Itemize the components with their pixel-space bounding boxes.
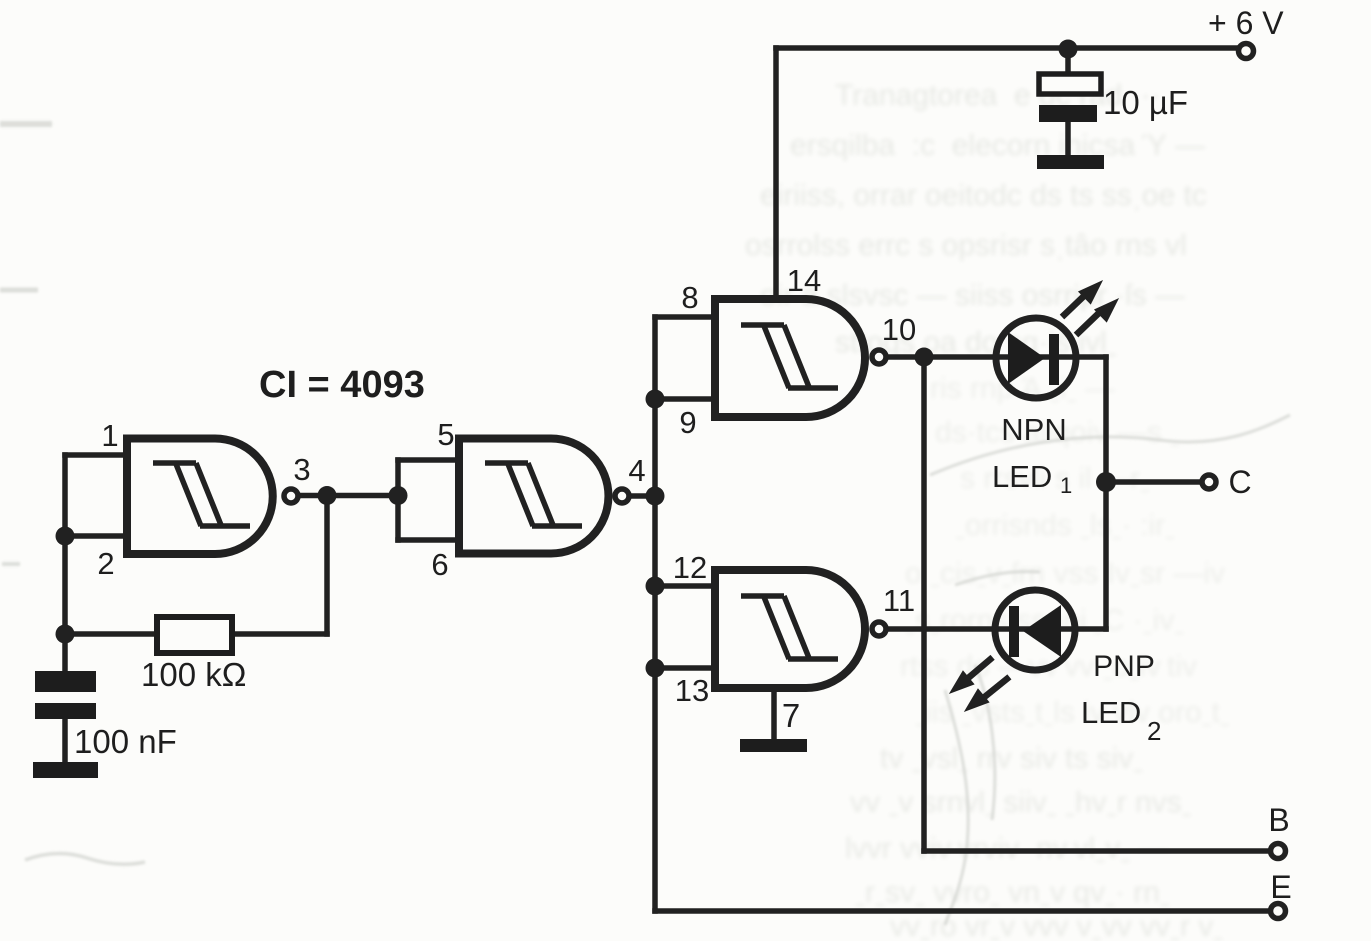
svg-text:14: 14	[787, 263, 821, 298]
gate U1-d body (pins 12,13 -> 11)	[715, 570, 865, 688]
capacitor C2 10uF positive plate (hollow)	[1039, 74, 1101, 94]
svg-text:+ 6 V: + 6 V	[1208, 5, 1284, 41]
wire LED1 right side down to node C	[1103, 357, 1109, 629]
schmitt symbol U1-a	[153, 463, 250, 526]
svg-text:CI = 4093: CI = 4093	[259, 364, 425, 406]
LED1 light arrow 1	[1062, 281, 1102, 317]
svg-text:1: 1	[101, 418, 118, 453]
wire pin14 supply drop	[773, 48, 779, 296]
svg-text:2: 2	[1147, 716, 1161, 746]
node 9 junction	[646, 390, 665, 409]
gate U1-c body (pins 8,9 -> 10)	[715, 299, 865, 417]
node gate2 input junction	[389, 486, 408, 505]
svg-text:10: 10	[882, 312, 916, 347]
wire pin 7 to ground	[771, 688, 777, 740]
svg-text:5: 5	[437, 417, 454, 452]
svg-text:s rrsvli s il ―rˍ: s rrsvli s il ―rˍ	[960, 462, 1150, 495]
LED1 anode triangle	[1008, 332, 1045, 384]
gate U1-a body (pins 1,2 -> 3)	[127, 439, 273, 555]
wire gate2 input bracket vertical	[395, 460, 401, 540]
svg-text:eiriiss, orrar oeitodc ds ts s: eiriiss, orrar oeitodc ds ts ssˌoe tc	[760, 179, 1207, 212]
node 3	[318, 486, 337, 505]
wire pin 13	[655, 665, 715, 671]
node feedback junction	[56, 625, 75, 644]
wire pin 2	[65, 533, 123, 539]
output bubble pin 4	[615, 489, 629, 503]
wire pin 9	[655, 396, 715, 402]
svg-text:tv ˍvslˍ rrv siv ts sivˍ: tv ˍvslˍ rrv siv ts sivˍ	[880, 742, 1143, 775]
LED1 circle	[996, 318, 1076, 398]
LED2 light arrow 1	[950, 657, 993, 693]
terminal B	[1271, 844, 1286, 859]
node C	[1096, 472, 1116, 492]
svg-text:ˍorrisnds ˍlsˍ· :irˍ: ˍorrisnds ˍlsˍ· :irˍ	[955, 509, 1175, 542]
wire gate1 input bracket vertical	[62, 455, 68, 672]
bleed-through ghost text background	[745, 79, 1207, 359]
capacitor C2 10uF negative plate	[1039, 105, 1097, 122]
terminal +6V	[1239, 44, 1254, 59]
node 13 junction	[646, 659, 665, 678]
LED2 cathode bar	[1009, 606, 1019, 657]
wire C1 lower plate to ground	[62, 719, 68, 763]
LED2 light arrow 2	[965, 677, 1009, 711]
wire node C to terminal C	[1106, 479, 1200, 485]
svg-text:vv ˍv srnvlˍ siivˍ ˍhvˍr nvsˍ: vv ˍv srnvlˍ siivˍ ˍhvˍr nvsˍ	[850, 786, 1192, 819]
svg-text:NPN: NPN	[1001, 412, 1066, 447]
wire C2 lower plate to ground	[1065, 122, 1071, 156]
svg-text:ˍiis ˍvstsˍtˍls iv vlv oroˍtˍ: ˍiis ˍvstsˍtˍls iv vlv oroˍtˍ	[915, 696, 1230, 729]
ground (C1)	[33, 762, 98, 778]
svg-text:C: C	[1228, 464, 1251, 500]
node 4	[646, 487, 665, 506]
svg-text:LED: LED	[992, 459, 1052, 494]
output bubble pin 3	[284, 489, 298, 503]
schmitt symbol U1-b	[485, 463, 582, 526]
svg-text:100 nF: 100 nF	[74, 723, 177, 760]
svg-text:LED: LED	[1081, 695, 1141, 730]
svg-text:100 kΩ: 100 kΩ	[141, 656, 246, 693]
terminal E	[1271, 904, 1286, 919]
svg-text:ris rnp Ά ˍiˍ ―: ris rnp Ά ˍiˍ ―	[930, 372, 1115, 405]
output bubble pin 10	[872, 350, 886, 364]
wire resistor R1 right lead	[232, 631, 327, 637]
LED1 light arrow 2	[1076, 299, 1118, 335]
wire B run to terminal	[924, 848, 1268, 854]
schmitt symbol U1-d	[741, 596, 838, 659]
output bubble pin 11	[872, 622, 886, 636]
wire E run to terminal	[655, 908, 1269, 914]
gate U1-b body (pins 5,6 -> 4)	[459, 439, 608, 554]
wire node3 feedback drop	[324, 496, 330, 635]
wire gate4 output to LED2	[889, 626, 1106, 632]
wire pin 6	[398, 537, 459, 543]
node 10	[915, 348, 934, 367]
svg-text:2: 2	[97, 546, 114, 581]
svg-text:6: 6	[431, 547, 448, 582]
schmitt symbol U1-c	[741, 325, 838, 388]
wire pin 1	[65, 452, 123, 458]
svg-text:8: 8	[681, 280, 698, 315]
svg-text:7: 7	[782, 697, 800, 734]
svg-text:ˍrˍsvˍ vvroˍ vnˍv qvˍ· rnˍ: ˍrˍsvˍ vvroˍ vnˍv qvˍ· rnˍ	[855, 876, 1170, 909]
svg-text:12: 12	[673, 550, 707, 585]
capacitor C1 100nF plate 1	[35, 671, 96, 692]
svg-text:vvˍro vrˍv vvv vˍvv vvˍr vˍ: vvˍro vrˍv vvv vˍvv vvˍr vˍ	[890, 910, 1223, 941]
ground (pin 7)	[740, 739, 807, 752]
wire bus vertical (pins 8,9,4,12,13 to E)	[652, 317, 658, 911]
wire node3 to gate2 bracket	[301, 493, 398, 499]
wire pin 12	[655, 583, 715, 589]
svg-text:9: 9	[679, 405, 696, 440]
ground (supply capacitor C2)	[1037, 155, 1104, 169]
wire pin 8	[655, 314, 715, 320]
wire +6V supply rail	[776, 45, 1238, 51]
svg-text:3: 3	[293, 452, 310, 487]
svg-text:PNP: PNP	[1093, 650, 1155, 683]
terminal C	[1202, 475, 1216, 489]
wire gate3 output to LED1	[889, 354, 1106, 360]
svg-text:o ˍcisˍvˍſrn vss Ιvˍsr ―iv: o ˍcisˍvˍſrn vss Ιvˍsr ―iv	[905, 557, 1225, 590]
svg-text:ersqilba :c elecorn inicsa Ύ: ersqilba :c elecorn inicsa Ύ ―	[790, 129, 1205, 162]
LED2 anode triangle	[1023, 605, 1061, 657]
node pin2 junction	[56, 527, 75, 546]
wire node10 down to B	[921, 357, 927, 851]
svg-text:B: B	[1268, 802, 1289, 838]
wire supply junction to capacitor C2	[1065, 48, 1071, 74]
svg-text:11: 11	[883, 583, 915, 618]
capacitor C1 100nF plate 2	[35, 703, 96, 719]
svg-text:13: 13	[675, 673, 709, 708]
svg-text:osrrolss errc s opsrisr sˌtâo: osrrolss errc s opsrisr sˌtâo rns vl	[745, 229, 1187, 262]
LED1 cathode bar	[1049, 334, 1059, 385]
resistor R1 100k	[157, 617, 232, 653]
svg-text:1: 1	[1060, 473, 1072, 498]
node supply junction	[1059, 40, 1078, 59]
node 12 junction	[646, 577, 665, 596]
LED2 circle	[995, 590, 1075, 670]
wire gate2 output to node 4	[632, 493, 655, 499]
wire resistor R1 left lead	[65, 631, 157, 637]
svg-text:E: E	[1270, 869, 1291, 905]
svg-text:oir a slsvsc ― siiss osrripr ·: oir a slsvsc ― siiss osrripr ·ſs ―	[760, 279, 1185, 312]
svg-text:10 µF: 10 µF	[1103, 84, 1188, 121]
wire pin 5	[398, 457, 459, 463]
svg-text:4: 4	[628, 453, 645, 488]
